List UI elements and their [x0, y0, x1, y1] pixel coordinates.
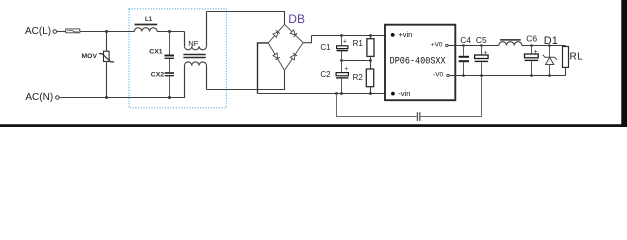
node junction R2 bottom — [369, 92, 372, 95]
svg-text:R1: R1 — [353, 39, 364, 48]
node junction C5 top — [480, 44, 483, 47]
svg-text:C6: C6 — [526, 33, 537, 43]
wire CX1 to CX2 — [169, 59, 171, 72]
svg-text:AC(N): AC(N) — [25, 92, 53, 103]
svg-text:C1: C1 — [320, 43, 331, 52]
wire primary positive rail — [312, 35, 393, 37]
capacitor Y1 (isolation) — [417, 112, 419, 121]
node junction top of MOV — [105, 30, 108, 33]
inductor L2 (output filter) — [499, 40, 522, 46]
capacitor C4 — [459, 46, 469, 76]
node junction bottom of CX2 — [168, 96, 171, 99]
wire MOV upper lead — [106, 32, 108, 52]
page black bar right edge — [621, 0, 627, 127]
wire secondary positive rail (left part) — [455, 45, 499, 47]
svg-text:D1: D1 — [544, 35, 558, 47]
wire secondary negative rail — [455, 75, 565, 77]
diode DB upper-left — [273, 30, 280, 37]
wire NF top to bridge top corner — [207, 12, 285, 25]
wire CX1 upper lead — [169, 32, 171, 56]
node junction top of CX1 — [168, 30, 171, 33]
wire bridge plus (right corner) up to positive rail — [303, 36, 311, 43]
wire NF bottom to bridge bottom corner — [207, 70, 285, 89]
diode DB lower-right — [290, 53, 297, 60]
bridge rectifier DB — [268, 24, 303, 70]
converter module U1 DP06-400SXX — [385, 25, 455, 101]
terminal circle AC(N) — [56, 96, 60, 100]
capacitor C2 — [336, 61, 348, 94]
node junction bottom of MOV — [105, 96, 108, 99]
common-mode choke NF — [183, 12, 206, 98]
diode DB lower-left — [273, 53, 280, 60]
wire CX2 lower lead — [169, 76, 171, 97]
svg-text:R2: R2 — [353, 73, 364, 82]
resistor R1 — [367, 36, 374, 61]
svg-text:DB: DB — [288, 12, 305, 26]
capacitor C6 — [525, 46, 539, 76]
node junction C1 top — [340, 34, 343, 37]
inductor L1 — [134, 25, 157, 32]
fuse F1 — [66, 29, 80, 33]
wire middle rail C1/R1 — [342, 60, 371, 62]
EMI filter dotted enclosure box — [129, 9, 226, 108]
node junction C5 bottom — [480, 74, 483, 77]
node junction C4 top — [462, 44, 465, 47]
capacitor C5 — [475, 46, 489, 76]
node junction D1 top — [548, 44, 551, 47]
wire MOV lower lead — [106, 62, 108, 98]
pin +vin — [391, 30, 413, 39]
wire Y-capacitor branch down and across — [337, 94, 417, 117]
svg-text:-V0: -V0 — [433, 72, 443, 79]
svg-text:NF: NF — [188, 39, 198, 48]
pin +V0 — [431, 41, 455, 48]
svg-text:C4: C4 — [460, 35, 471, 45]
terminal circle AC(L) — [53, 30, 57, 34]
svg-text:DP06-400SXX: DP06-400SXX — [390, 55, 446, 67]
svg-text:CX2: CX2 — [151, 72, 164, 79]
node junction C1 bottom — [340, 59, 343, 62]
wire bridge minus (left corner) down to negative rail — [258, 43, 269, 94]
capacitor CX1 — [165, 56, 175, 59]
node junction C2 bottom — [340, 92, 343, 95]
resistor RL — [563, 46, 569, 76]
wire primary negative rail — [258, 93, 393, 95]
svg-text:C2: C2 — [320, 70, 331, 79]
node junction R1 bottom — [369, 59, 372, 62]
svg-text:+V0: +V0 — [431, 41, 443, 48]
svg-text:+vin: +vin — [398, 30, 412, 39]
svg-text:AC(L): AC(L) — [25, 26, 51, 37]
zener diode D1 — [543, 46, 558, 76]
capacitor CX2 — [165, 73, 174, 76]
wire AC(N) line — [59, 97, 185, 99]
node junction C6 bottom — [530, 74, 533, 77]
wire Y-capacitor to secondary ground — [421, 76, 482, 117]
node junction Y-capacitor branch — [335, 92, 338, 95]
resistor R2 — [366, 61, 373, 94]
svg-text:-vin: -vin — [398, 89, 410, 98]
varistor MOV — [99, 51, 114, 62]
pin -vin — [391, 89, 410, 98]
svg-text:RL: RL — [570, 51, 584, 62]
node junction C6 top — [530, 44, 533, 47]
page divider black bar bottom — [0, 124, 627, 127]
svg-text:MOV: MOV — [82, 53, 98, 60]
svg-text:+: + — [343, 38, 347, 45]
svg-text:L1: L1 — [145, 16, 153, 23]
diode DB upper-right — [290, 30, 297, 37]
wire secondary positive rail (right part) — [522, 45, 566, 47]
node junction R1 top — [369, 34, 372, 37]
pin -V0 — [433, 72, 455, 79]
node junction C4 bottom — [462, 74, 465, 77]
wire fuse to L1 — [80, 31, 135, 33]
svg-text:C5: C5 — [476, 35, 487, 45]
wire L1 to NF — [157, 31, 184, 33]
wire AC(L) to fuse — [57, 31, 66, 33]
capacitor C1 — [337, 36, 348, 61]
node junction D1 bottom — [548, 74, 551, 77]
svg-text:CX1: CX1 — [149, 48, 162, 55]
